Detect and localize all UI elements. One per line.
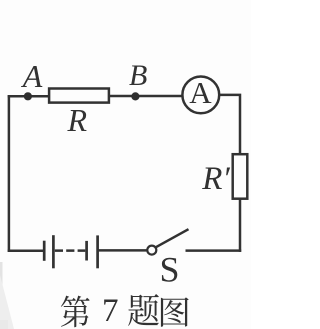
svg-text:S: S — [160, 249, 180, 289]
wire: battery to switch — [98, 249, 148, 252]
wire: bottom-right horizontal (switch contact to corner) — [186, 249, 242, 252]
svg-text:A: A — [189, 75, 212, 110]
wire: ammeter to top-right corner and down — [219, 95, 240, 154]
wire: top-left horizontal (A node to resistor R) — [8, 95, 49, 98]
battery cell 1: short plate (negative) — [43, 241, 46, 261]
svg-text:R: R — [67, 102, 88, 138]
wire: R' down to bottom-right corner — [239, 199, 242, 252]
scan smudge bottom-left — [0, 262, 14, 329]
battery cell 1: long plate (positive) — [52, 235, 55, 268]
node B (junction dot) — [131, 92, 139, 100]
svg-text:B: B — [129, 59, 147, 92]
resistor R (box) — [49, 89, 109, 103]
ammeter U1 (circle) — [182, 77, 219, 114]
battery cell 2: short plate (negative) — [85, 241, 88, 261]
wire: dashed link between cells — [55, 249, 86, 252]
svg-text:A: A — [21, 58, 43, 94]
svg-text:R′: R′ — [201, 161, 230, 197]
wire: resistor R to ammeter — [110, 95, 182, 98]
wire: left vertical side — [8, 95, 11, 252]
switch S: arm (open blade) — [156, 229, 189, 247]
caption: 题 — [128, 294, 159, 326]
caption: 第 — [61, 293, 189, 329]
svg-text:7: 7 — [102, 293, 119, 329]
caption: 图 — [161, 297, 189, 326]
switch S: hinge circle — [147, 246, 156, 255]
wire: bottom-left horizontal (corner to battery) — [8, 249, 45, 252]
battery cell 2: long plate (positive) — [96, 235, 99, 268]
node A (junction dot) — [24, 92, 32, 100]
resistor R' (box) — [233, 154, 248, 199]
